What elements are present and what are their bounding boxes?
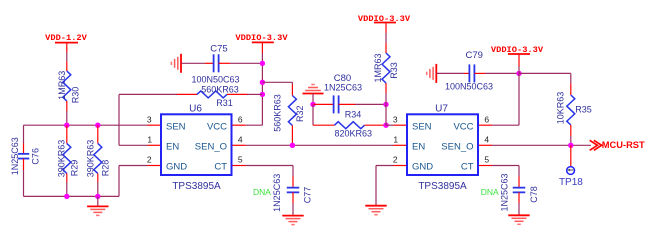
svg-text:2: 2 [147,155,152,165]
svg-text:C76: C76 [31,148,41,165]
svg-text:DNA: DNA [253,187,271,197]
svg-text:C78: C78 [529,186,539,203]
svg-text:VCC: VCC [453,121,473,132]
svg-text:1MR63: 1MR63 [57,71,67,100]
svg-text:R32: R32 [295,105,305,122]
svg-text:390KR63: 390KR63 [86,140,96,178]
svg-text:R28: R28 [101,160,111,177]
svg-text:C79: C79 [465,50,482,61]
svg-text:GND: GND [166,162,187,173]
svg-text:560KR63: 560KR63 [273,94,283,132]
svg-text:R35: R35 [575,105,592,115]
svg-text:TPS3895A: TPS3895A [172,181,221,192]
svg-text:C75: C75 [210,44,227,55]
svg-text:2: 2 [393,155,398,165]
svg-text:TP18: TP18 [559,177,583,188]
svg-text:SEN_O: SEN_O [195,142,227,153]
svg-text:U7: U7 [435,103,448,114]
svg-text:EN: EN [166,142,179,153]
svg-text:R31: R31 [216,98,233,108]
svg-text:R29: R29 [69,160,79,177]
svg-text:R30: R30 [71,87,81,104]
svg-text:EN: EN [412,142,425,153]
svg-text:VDDIO-3.3V: VDDIO-3.3V [491,45,544,55]
svg-text:4: 4 [238,135,243,145]
svg-text:10KR63: 10KR63 [556,92,566,125]
svg-text:1: 1 [147,135,152,145]
svg-text:820KR63: 820KR63 [335,129,373,139]
svg-text:TPS3895A: TPS3895A [418,181,467,192]
svg-text:100N50C63: 100N50C63 [445,82,493,92]
svg-text:1N25C63: 1N25C63 [10,137,20,175]
svg-text:5: 5 [238,155,243,165]
svg-text:SEN: SEN [166,121,186,132]
svg-text:C77: C77 [303,187,313,204]
svg-text:5: 5 [484,155,489,165]
svg-text:1N25C63: 1N25C63 [272,174,282,212]
svg-text:6: 6 [484,114,489,124]
svg-text:VCC: VCC [207,121,227,132]
svg-text:4: 4 [484,135,489,145]
svg-text:R34: R34 [345,109,362,119]
svg-text:SEN_O: SEN_O [441,142,473,153]
svg-text:6: 6 [238,114,243,124]
svg-text:1N25C63: 1N25C63 [499,173,509,211]
svg-text:390KR63: 390KR63 [57,140,67,178]
svg-text:1MR63: 1MR63 [373,53,383,82]
svg-text:VDD-1.2V: VDD-1.2V [45,33,87,43]
svg-text:VDDIO-3.3V: VDDIO-3.3V [358,14,411,24]
svg-text:560KR63: 560KR63 [201,85,239,95]
svg-text:3: 3 [147,114,152,124]
svg-text:GND: GND [412,162,433,173]
svg-text:SEN: SEN [412,121,432,132]
svg-text:U6: U6 [189,103,202,114]
svg-text:100N50C63: 100N50C63 [191,75,239,85]
svg-text:DNA: DNA [481,187,499,197]
svg-text:1: 1 [393,135,398,145]
svg-text:3: 3 [393,114,398,124]
svg-text:R33: R33 [389,62,399,79]
svg-text:VDDIO-3.3V: VDDIO-3.3V [235,33,288,43]
svg-text:CT: CT [214,162,227,173]
svg-text:CT: CT [461,162,474,173]
svg-text:MCU-RST: MCU-RST [602,140,645,150]
svg-text:1N25C63: 1N25C63 [324,82,362,92]
